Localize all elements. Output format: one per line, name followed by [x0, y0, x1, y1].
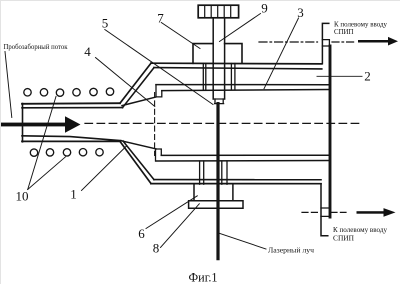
top seat sleeve right wall	[231, 64, 235, 90]
right end bottom tap	[321, 184, 328, 236]
svg-text:2: 2	[364, 69, 371, 84]
flow arrow (sampled stream)	[1, 116, 81, 132]
inner tube 3 top wall outer line	[156, 84, 329, 86]
svg-text:4: 4	[84, 44, 91, 59]
inlet tube top wall inner line	[22, 107, 123, 109]
svg-text:9: 9	[261, 1, 268, 16]
svg-text:Пробозаборный поток: Пробозаборный поток	[4, 42, 68, 51]
dashed section plane vertical	[154, 93, 156, 156]
bottom port axis dash-dot	[302, 211, 319, 213]
laser label leader	[220, 233, 266, 249]
svg-text:10: 10	[16, 189, 29, 204]
top port axis dash-dot	[259, 41, 318, 43]
leader line to flow arrow	[5, 52, 12, 118]
right end plate	[329, 46, 332, 217]
right end top tap	[322, 23, 328, 63]
perforation holes 10, bottom row	[30, 149, 103, 157]
label 8 leader	[161, 204, 200, 248]
inner tube 3 bottom wall inner line	[161, 154, 329, 156]
body top wall inner line	[154, 68, 322, 69]
inlet tube left end	[22, 104, 24, 142]
knob knurl lines	[205, 5, 231, 18]
bonnet block 7 left	[193, 44, 213, 64]
bottom sleeve left wall	[200, 161, 204, 184]
svg-text:1: 1	[70, 187, 77, 202]
inner tube 3 top wall inner line	[162, 90, 329, 91]
bottom cone inner shell line	[123, 141, 154, 180]
label 1 leader	[82, 146, 127, 191]
stem shoulder line	[213, 98, 224, 100]
inner tube 3 top inlet step	[156, 85, 162, 97]
bottom inner channel cone line	[121, 141, 156, 149]
bottom plate 8	[189, 201, 243, 208]
top port arrow	[358, 37, 398, 46]
knurled knob	[198, 5, 238, 18]
label 10 leader to bottom holes	[28, 157, 66, 190]
svg-text:3: 3	[297, 5, 304, 20]
body bottom wall inner line	[154, 179, 321, 181]
label 3 leader	[264, 18, 299, 89]
svg-text:Лазерный луч: Лазерный луч	[268, 246, 314, 255]
perforation holes 10, top row	[24, 88, 114, 96]
svg-text:8: 8	[153, 241, 160, 256]
label 9 leader	[220, 14, 261, 42]
top seat sleeve left wall	[203, 64, 206, 90]
top cone outer shell line	[120, 63, 151, 103]
svg-text:Фиг.1: Фиг.1	[189, 271, 218, 284]
body bottom wall outer line	[151, 183, 321, 185]
bottom fitting block 6	[194, 184, 233, 200]
right end top tap box	[322, 40, 329, 46]
bottom cone outer shell line	[120, 141, 151, 183]
label 10 leader to top holes	[28, 97, 56, 190]
top inner channel cone line	[122, 97, 156, 106]
label 4 leader	[96, 58, 155, 107]
label 7 leader	[161, 23, 200, 49]
label 2 leader	[317, 75, 362, 77]
laser beam line	[216, 104, 219, 259]
right end bottom tap box	[321, 208, 329, 216]
svg-text:7: 7	[157, 11, 164, 26]
inlet tube bottom wall inner line	[22, 136, 121, 141]
inner tube 3 bottom inlet step	[156, 149, 162, 161]
svg-text:5: 5	[102, 16, 109, 31]
svg-text:6: 6	[138, 226, 145, 241]
body top wall outer line	[151, 62, 322, 65]
stem tip cap	[215, 99, 224, 104]
bottom sleeve right wall	[222, 161, 227, 184]
bottom port arrow	[357, 208, 396, 217]
svg-text:СПИП: СПИП	[334, 27, 354, 36]
bonnet block 7 right	[225, 44, 242, 63]
digit labels	[16, 1, 371, 256]
label 6 leader	[146, 196, 197, 229]
top cone inner shell line	[123, 68, 155, 108]
inner tube 3 bottom wall outer line	[156, 160, 329, 163]
dashed axis centerline	[85, 122, 362, 124]
label 5 leader	[105, 30, 213, 105]
inlet tube top wall outer line	[22, 102, 120, 105]
svg-text:СПИП: СПИП	[333, 234, 355, 243]
valve stem 9	[213, 18, 224, 99]
inlet tube bottom wall outer line	[22, 140, 120, 142]
